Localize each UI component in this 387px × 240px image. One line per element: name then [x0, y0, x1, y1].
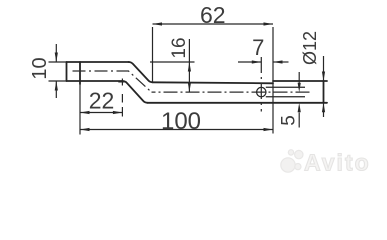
svg-text:Avito: Avito [304, 150, 371, 176]
dimension Ø12 arrow tails [323, 56, 325, 117]
bar left inner edge [79, 62, 81, 84]
dimension 7 arrowheads [252, 60, 261, 63]
watermark logo circle bottom small [295, 164, 301, 170]
dimension 100 arrowheads [80, 128, 90, 131]
bar left end edge [66, 62, 68, 81]
dimension 22: extension lines [80, 79, 127, 135]
hole tangent hidden line top [266, 86, 305, 88]
dimension 22 arrowheads [80, 111, 90, 114]
dimension Ø12 arrowheads [322, 72, 325, 82]
svg-text:5: 5 [279, 115, 300, 126]
hole tangent hidden line bottom [266, 96, 305, 98]
dimension 16 arrowheads [188, 62, 191, 72]
watermark logo circle top small [288, 150, 293, 155]
svg-text:22: 22 [89, 88, 115, 114]
dimension 22 line [80, 112, 122, 114]
bar upper bottom edge [67, 80, 123, 82]
dimension 10: extension ticks [49, 44, 67, 98]
svg-text:100: 100 [161, 108, 201, 135]
centerline lower bar [152, 91, 312, 93]
dimension 10: arrowheads [55, 53, 58, 63]
hole vertical centerline [260, 57, 262, 112]
dimension 62 arrowheads [153, 22, 163, 25]
bar upper top edge [67, 61, 130, 63]
svg-text:10: 10 [29, 57, 51, 79]
watermark logo circle right [295, 150, 303, 158]
dimension 16: extension tick [150, 39, 195, 92]
tube top edge [273, 80, 327, 82]
svg-text:62: 62 [200, 2, 226, 28]
dimension 62 line and extensions [153, 24, 274, 134]
svg-text:Ø12: Ø12 [300, 31, 320, 65]
dimension 100 line [80, 129, 273, 131]
dimension 5 line [298, 72, 300, 128]
centerline upper bar [73, 71, 152, 92]
svg-text:16: 16 [169, 37, 190, 58]
bar lower top edge [153, 82, 273, 83]
bar top bend curve [129, 62, 153, 82]
bar right end edge [323, 81, 325, 103]
hole circle [257, 87, 266, 96]
bar bottom edge [148, 102, 327, 104]
bar bottom bend curve [122, 81, 147, 103]
svg-text:7: 7 [252, 35, 264, 60]
dimension 7 line [238, 61, 289, 63]
dimension 5 arrowheads [298, 83, 301, 93]
watermark logo circle big [281, 158, 295, 172]
